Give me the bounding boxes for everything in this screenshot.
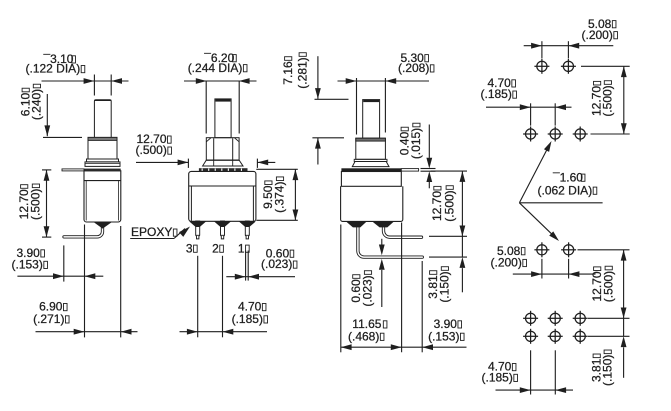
third view lead upper xyxy=(384,227,422,238)
dimension 3.90 (.153) third view xyxy=(402,346,423,348)
dimension 3.81 (.150) third view right xyxy=(461,236,463,257)
svg-text:(.500): (.500) xyxy=(136,143,167,157)
pcb bottom group hole rowC mid xyxy=(548,329,563,344)
middle view epoxy menisci xyxy=(189,221,206,227)
pcb bottom group hole rowC left xyxy=(523,329,538,344)
pcb top group hole row1 right xyxy=(561,59,576,74)
left view body xyxy=(84,171,121,222)
dimension 11.65 (.468) xyxy=(341,346,402,348)
third view ring xyxy=(354,159,387,161)
third view flange xyxy=(352,162,389,167)
svg-text:(.185): (.185) xyxy=(482,371,513,385)
middle view body seam xyxy=(189,185,256,187)
third view extension lines bottom xyxy=(340,225,342,353)
svg-text:(.374): (.374) xyxy=(273,182,287,213)
left view ring 1 xyxy=(87,159,119,162)
third view dark top band xyxy=(341,168,401,171)
dimension 3.90 (.153) xyxy=(17,275,103,277)
left view bent terminal lead xyxy=(64,227,103,237)
pcb top group hole row1 left xyxy=(534,59,549,74)
middle view body inner side lines xyxy=(190,186,192,221)
dimension 12.70 (.500) top group xyxy=(581,65,630,67)
svg-text:(.500): (.500) xyxy=(601,271,615,302)
dimension 6.20 (.244 DIA) xyxy=(184,80,257,82)
dimension 0.60 (.023) pin width xyxy=(226,276,295,278)
pcb bottom group hole rowB right xyxy=(573,311,588,326)
third view body lower xyxy=(341,186,403,221)
third view epoxy seal left xyxy=(346,221,367,227)
leader 1.60 (.062 DIA) hole size xyxy=(519,150,547,203)
svg-text:(.185): (.185) xyxy=(232,312,263,326)
left view body seam xyxy=(84,180,121,182)
left view ring 2 xyxy=(85,162,120,167)
svg-text:2: 2 xyxy=(212,241,219,255)
svg-text:(.150): (.150) xyxy=(438,271,452,302)
dimension 12.70 (.500) bottom group xyxy=(578,249,630,251)
dimension 6.90 (.271) xyxy=(36,331,138,333)
third view bushing extension lines (5.30) xyxy=(356,78,358,135)
svg-text:(.023): (.023) xyxy=(361,275,375,306)
dimension 9.50 (.374) right of middle view xyxy=(256,168,298,170)
pcb top group hole row2 mid xyxy=(548,127,563,142)
dimension 4.70 (.185) middle bottom xyxy=(180,331,268,333)
svg-text:(.200): (.200) xyxy=(582,28,613,42)
dimension 6.10 (.240) vertical xyxy=(46,94,48,136)
svg-text:(.500): (.500) xyxy=(29,189,43,220)
svg-text:(.500): (.500) xyxy=(601,85,615,116)
middle view body outline xyxy=(189,171,256,221)
label 12.70 (.500) rotated left xyxy=(17,185,31,220)
left view epoxy seal triangle xyxy=(93,222,113,229)
middle view hex bushing xyxy=(206,138,239,160)
svg-text:(.500): (.500) xyxy=(442,190,456,221)
left view mounting tab xyxy=(62,169,84,171)
svg-text:(.244 DIA): (.244 DIA) xyxy=(188,61,243,75)
third view mounting tab right xyxy=(401,169,418,172)
svg-text:3: 3 xyxy=(186,241,193,255)
pcb bottom group hole rowC right xyxy=(573,329,588,344)
middle view shaft xyxy=(215,99,231,138)
dimension 0.40 (.015) tab thickness xyxy=(421,168,436,170)
dimension 0.60 (.023) lead thickness xyxy=(379,245,385,256)
pin pitch extension lines xyxy=(197,256,199,337)
svg-text:(.023): (.023) xyxy=(261,257,292,271)
dimension 3.81 (.150) bottom group xyxy=(623,318,625,336)
pcb bottom group hole rowA right xyxy=(561,242,576,257)
middle view knurl band xyxy=(199,168,248,171)
dimension 5.30 (.208) xyxy=(338,80,430,82)
svg-text:(.153): (.153) xyxy=(428,329,459,343)
left view shaft xyxy=(94,100,111,138)
pin 1 extension lines xyxy=(245,251,247,281)
svg-text:(.153): (.153) xyxy=(12,258,43,272)
extension line body left xyxy=(84,225,86,338)
dimension 12.70 (.500) left vertical xyxy=(46,170,48,237)
svg-text:(.468): (.468) xyxy=(348,329,379,343)
left view bushing xyxy=(88,137,117,159)
pcb bottom group hole rowB left xyxy=(523,311,538,326)
third view bushing xyxy=(356,138,386,159)
pcb bottom group hole rowB mid xyxy=(548,311,563,326)
label 6.10 (.240) rotated xyxy=(18,88,32,116)
third view shaft xyxy=(363,100,380,139)
middle view bushing extension lines (6.20 DIA) xyxy=(205,81,207,134)
middle view terminal pins 3,2,1 xyxy=(196,221,200,239)
third view lead lower xyxy=(358,227,422,258)
left view shaft extension lines (3.10 DIA) xyxy=(93,75,95,96)
middle view flange washer xyxy=(203,160,243,166)
svg-text:(.062 DIA): (.062 DIA) xyxy=(538,183,593,197)
third view epoxy seal right xyxy=(372,221,394,227)
pcb top group hole row2 left xyxy=(523,127,538,142)
dimension 5.08 (.200) top xyxy=(541,41,543,58)
dimension 12.70 (.500) third view right xyxy=(431,170,468,172)
dimension 7.16 (.281) vertical xyxy=(317,56,319,99)
svg-text:(.122 DIA): (.122 DIA) xyxy=(26,62,81,76)
svg-text:(.271): (.271) xyxy=(33,312,64,326)
svg-text:(.200): (.200) xyxy=(491,256,522,270)
svg-text:EPOXY: EPOXY xyxy=(131,225,172,239)
svg-text:(.240): (.240) xyxy=(30,89,44,120)
svg-text:(.150): (.150) xyxy=(600,355,614,386)
left view body inner side lines xyxy=(85,181,87,221)
pcb top group hole row2 right xyxy=(573,127,588,142)
svg-text:7.16: 7.16 xyxy=(281,61,295,85)
svg-text:(.281): (.281) xyxy=(295,57,309,88)
svg-text:(.185): (.185) xyxy=(481,87,512,101)
third view body upper xyxy=(341,172,401,187)
extension line lead end xyxy=(63,245,65,281)
pcb bottom group hole rowA left xyxy=(534,242,549,257)
dimension 12.70 (.500) middle horizontal xyxy=(136,161,188,163)
dimension 3.10 (.122 DIA) line+arrows xyxy=(42,80,129,82)
svg-text:1: 1 xyxy=(238,241,245,255)
svg-text:(.208): (.208) xyxy=(398,61,429,75)
svg-text:¯1.60: ¯1.60 xyxy=(552,170,583,184)
svg-text:(.015): (.015) xyxy=(409,128,423,159)
left view dark collar band xyxy=(84,169,121,172)
extension line body right xyxy=(120,226,122,337)
